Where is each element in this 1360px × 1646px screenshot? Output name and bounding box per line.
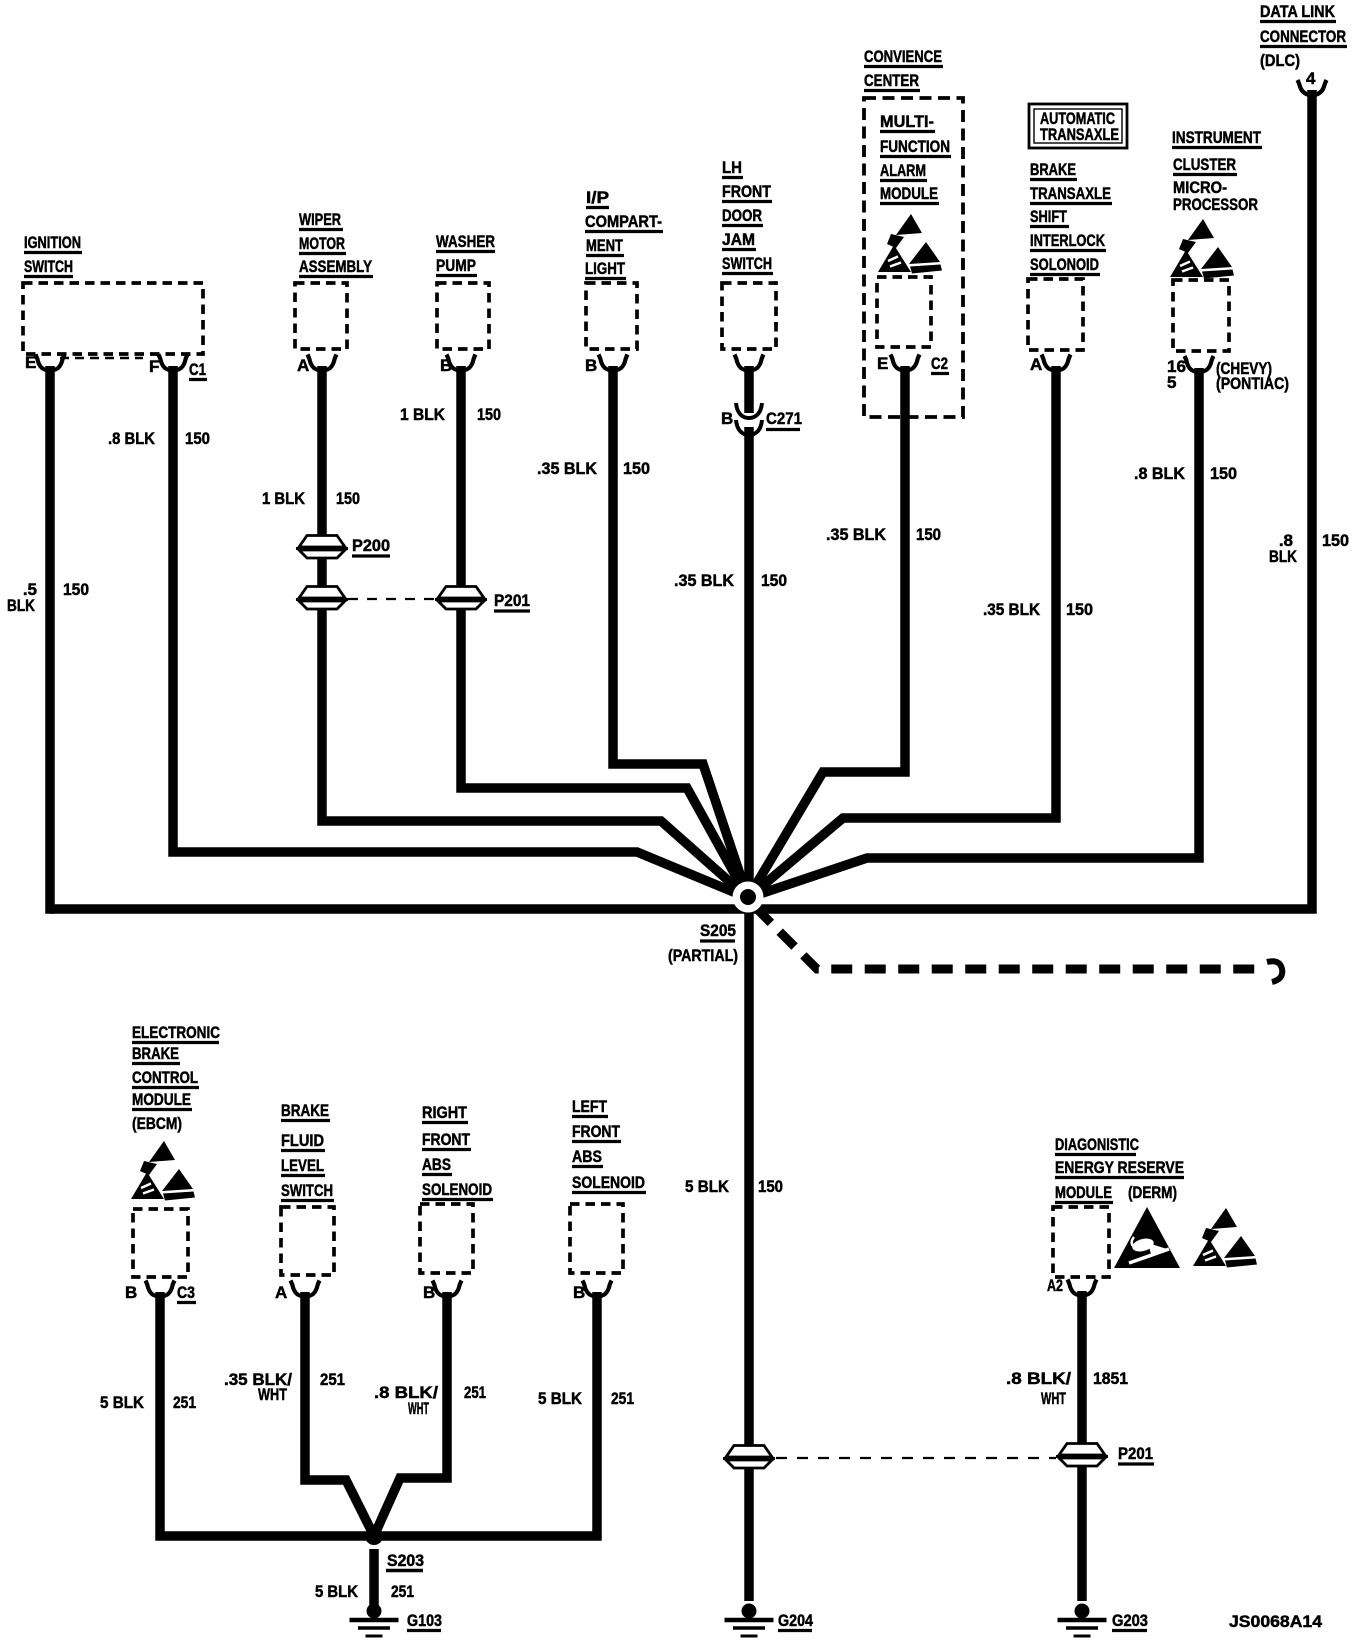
svg-text:TRANSAXLE: TRANSAXLE: [1040, 125, 1119, 144]
label G203: [1112, 1611, 1148, 1631]
wire EBCM to S203 (5 BLK 251): [160, 1292, 374, 1536]
data link connector label: [1260, 2, 1347, 70]
svg-text:S205: S205: [700, 921, 736, 940]
svg-text:ABS: ABS: [422, 1155, 451, 1174]
label B C271: [721, 409, 802, 430]
EBCM pin B: [125, 1281, 175, 1303]
ground G103: [350, 1604, 399, 1637]
label P201: [494, 591, 530, 611]
svg-text:S203: S203: [387, 1551, 424, 1570]
svg-text:150: 150: [1322, 531, 1349, 550]
DERM box: [1053, 1207, 1109, 1277]
grommet on G204 wire: [723, 1446, 775, 1469]
I/P compartment light label: [585, 188, 663, 279]
wire instrument cluster to S205 (.8 BLK 150): [748, 368, 1199, 898]
splice S203: [365, 1527, 383, 1545]
label .8 BLK 150 (DLC): [1269, 531, 1349, 566]
svg-text:MULTI-: MULTI-: [880, 112, 934, 131]
svg-text:WIPER: WIPER: [299, 210, 341, 229]
wire left front ABS to S203 (5 BLK 251): [374, 1292, 597, 1536]
svg-text:MENT: MENT: [586, 236, 623, 255]
svg-text:LIGHT: LIGHT: [585, 259, 625, 278]
label (CHEVY) (PONTIAC): [1216, 359, 1289, 393]
svg-text:BLK: BLK: [1269, 547, 1298, 566]
brake fluid level switch label: [281, 1101, 334, 1201]
label 5 BLK 251 (EBCM): [100, 1393, 196, 1412]
wire DLC to S205 (.8 BLK 150): [748, 90, 1312, 909]
svg-text:5 BLK: 5 BLK: [685, 1177, 730, 1196]
ESD symbol (instrument cluster): [1170, 219, 1234, 279]
svg-text:BRAKE: BRAKE: [281, 1101, 329, 1120]
convience center outer box: [864, 98, 963, 417]
svg-text:G203: G203: [1112, 1611, 1148, 1630]
svg-text:1 BLK: 1 BLK: [262, 489, 306, 508]
LH front door jam switch box: [722, 283, 776, 349]
wiper motor assembly box: [295, 283, 347, 349]
svg-text:150: 150: [761, 571, 787, 590]
svg-text:251: 251: [173, 1393, 196, 1412]
svg-text:PUMP: PUMP: [436, 256, 476, 275]
instrument cluster box: [1173, 280, 1229, 351]
svg-text:150: 150: [623, 459, 650, 478]
wire solonoid to S205 (.35 BLK 150): [748, 366, 1056, 898]
left front ABS pin B: [573, 1281, 612, 1303]
washer pump box: [437, 283, 489, 349]
svg-text:B: B: [721, 409, 733, 428]
svg-text:DATA LINK: DATA LINK: [1260, 2, 1336, 21]
label .35 BLK/WHT 251: [224, 1370, 345, 1404]
ignition switch label: [24, 233, 82, 277]
right front ABS solenoid box: [420, 1204, 473, 1273]
svg-text:BRAKE: BRAKE: [1030, 160, 1076, 179]
label G103: [407, 1611, 442, 1631]
svg-text:C271: C271: [766, 409, 802, 428]
wire right front ABS to S203 (.8 BLK/WHT 251): [374, 1292, 447, 1536]
svg-text:P201: P201: [494, 591, 530, 610]
svg-text:A: A: [1030, 355, 1042, 374]
label P201 (bottom): [1118, 1444, 1154, 1464]
dashed link to P201 (DERM): [776, 1457, 1056, 1459]
svg-text:ENERGY RESERVE: ENERGY RESERVE: [1055, 1158, 1184, 1177]
svg-text:ABS: ABS: [572, 1147, 602, 1166]
svg-text:IGNITION: IGNITION: [24, 233, 81, 252]
svg-text:DIAGONISTIC: DIAGONISTIC: [1055, 1135, 1139, 1154]
wiper motor assembly label: [299, 210, 373, 277]
svg-text:BLK: BLK: [7, 596, 36, 615]
svg-text:(DLC): (DLC): [1260, 51, 1300, 70]
svg-text:FLUID: FLUID: [281, 1131, 324, 1150]
grommet below P200: [296, 587, 348, 610]
wire DERM to G203 (.8 BLK/WHT 1851): [1077, 1291, 1087, 1601]
ignition switch box: [23, 283, 203, 358]
svg-text:.8 BLK: .8 BLK: [108, 429, 156, 448]
svg-text:150: 150: [916, 525, 941, 544]
svg-text:TRANSAXLE: TRANSAXLE: [1030, 184, 1111, 203]
svg-text:INTERLOCK: INTERLOCK: [1030, 231, 1106, 250]
EBCM box: [133, 1209, 188, 1277]
svg-text:MOTOR: MOTOR: [299, 234, 345, 253]
svg-text:ELECTRONIC: ELECTRONIC: [132, 1023, 220, 1042]
dashed link P200-P201: [348, 598, 436, 600]
label MODULE (DERM): [1055, 1183, 1177, 1203]
grommet P200: [296, 536, 348, 559]
label S205 (PARTIAL): [668, 921, 738, 965]
svg-text:WHT: WHT: [408, 1399, 429, 1418]
label .35 BLK 150 (solonoid): [983, 600, 1093, 619]
label S203: [386, 1551, 424, 1571]
washer pin B: [440, 355, 476, 376]
wire F to S205 (.8 BLK 150): [173, 366, 748, 898]
brake fluid level switch box: [281, 1207, 334, 1275]
label .8 BLK 150: [108, 429, 210, 448]
svg-text:WASHER: WASHER: [436, 232, 495, 251]
svg-text:P200: P200: [352, 536, 390, 555]
svg-text:150: 150: [477, 405, 501, 424]
wire E to S205 (.5 BLK 150): [45, 366, 55, 914]
svg-text:FRONT: FRONT: [722, 182, 772, 201]
wire S205 long horizontal to E: [50, 904, 748, 914]
svg-text:COMPART-: COMPART-: [585, 212, 662, 231]
grommet P201 (DERM wire): [1056, 1444, 1108, 1467]
svg-text:251: 251: [391, 1582, 414, 1601]
svg-text:150: 150: [1210, 464, 1237, 483]
svg-text:SOLONOID: SOLONOID: [1030, 255, 1099, 274]
ESD symbol (alarm module): [878, 214, 942, 274]
svg-text:A2: A2: [1047, 1276, 1063, 1295]
wiper pin A: [297, 355, 337, 376]
svg-text:CONTROL: CONTROL: [132, 1068, 198, 1087]
wire washer pump to S205 (1 BLK 150): [461, 366, 748, 898]
ignition pin F: [149, 355, 188, 377]
connector C2 label: [931, 354, 949, 374]
svg-text:.8 BLK: .8 BLK: [1134, 464, 1186, 483]
drawing number JS0068A14: [1229, 1612, 1323, 1631]
diagonistic energy reserve module label: [1055, 1135, 1184, 1178]
svg-text:INSTRUMENT: INSTRUMENT: [1172, 128, 1261, 147]
alarm pin E: [877, 354, 920, 373]
svg-text:MODULE: MODULE: [880, 184, 938, 203]
connector C3 label: [177, 1283, 196, 1303]
svg-text:F: F: [149, 357, 159, 376]
svg-text:CONVIENCE: CONVIENCE: [864, 47, 942, 66]
svg-text:251: 251: [611, 1389, 634, 1408]
I/P pin B: [585, 355, 628, 376]
svg-text:ALARM: ALARM: [880, 161, 926, 180]
svg-text:MODULE: MODULE: [1055, 1183, 1112, 1202]
label .35 BLK 150 (door): [674, 571, 787, 590]
svg-text:SOLENOID: SOLENOID: [422, 1180, 492, 1199]
svg-text:SWITCH: SWITCH: [24, 257, 73, 276]
ESD symbol (DERM): [1193, 1208, 1257, 1268]
label .8 BLK 150 (cluster): [1134, 464, 1237, 483]
label .8 BLK/WHT 251: [374, 1383, 486, 1418]
svg-text:5 BLK: 5 BLK: [538, 1389, 583, 1408]
ignition pin E: [25, 353, 65, 372]
svg-text:LEVEL: LEVEL: [281, 1156, 324, 1175]
svg-text:G103: G103: [407, 1611, 442, 1630]
svg-text:ASSEMBLY: ASSEMBLY: [299, 257, 373, 276]
label 1 BLK 150 (washer): [400, 405, 501, 424]
splice S205: [733, 882, 764, 913]
dashed wire from S205: [756, 908, 1282, 982]
svg-text:SHIFT: SHIFT: [1030, 207, 1067, 226]
label 5 BLK 251 (G103): [315, 1582, 414, 1601]
brake fluid pin A: [275, 1281, 320, 1303]
convience center label: [864, 47, 943, 91]
I/P compartment light box: [586, 283, 637, 349]
left front ABS solenoid label: [572, 1097, 646, 1193]
svg-text:SOLENOID: SOLENOID: [572, 1173, 645, 1192]
svg-text:G204: G204: [778, 1611, 813, 1630]
wire alarm module to S205 (.35 BLK 150): [748, 366, 905, 898]
svg-text:A: A: [275, 1283, 287, 1302]
svg-text:CENTER: CENTER: [864, 71, 919, 90]
door switch pin cup: [735, 355, 764, 371]
brake transaxle shift interlock solonoid label: [1030, 160, 1112, 275]
svg-text:JS0068A14: JS0068A14: [1229, 1612, 1323, 1631]
svg-text:B: B: [585, 356, 597, 375]
ground G204: [725, 1604, 774, 1637]
label .5 BLK 150: [7, 580, 89, 615]
svg-text:5 BLK: 5 BLK: [100, 1393, 145, 1412]
svg-text:CONNECTOR: CONNECTOR: [1260, 27, 1346, 46]
svg-text:(DERM): (DERM): [1128, 1183, 1177, 1202]
svg-text:MODULE: MODULE: [132, 1090, 191, 1109]
right front ABS solenoid label: [422, 1103, 493, 1200]
LH front door jam switch label: [722, 158, 773, 274]
label P200: [352, 536, 390, 556]
left front ABS solenoid box: [570, 1204, 623, 1273]
svg-text:WHT: WHT: [1041, 1389, 1066, 1408]
right front ABS pin B: [423, 1281, 462, 1303]
automatic transaxle box label: [1029, 104, 1127, 148]
svg-text:CLUSTER: CLUSTER: [1173, 155, 1236, 174]
svg-text:FRONT: FRONT: [572, 1122, 621, 1141]
svg-text:DOOR: DOOR: [722, 206, 762, 225]
svg-text:150: 150: [185, 429, 210, 448]
svg-text:150: 150: [336, 489, 360, 508]
multi-function alarm module label: [880, 112, 951, 204]
brake transaxle shift interlock solonoid box: [1028, 279, 1083, 350]
grommet P201: [435, 587, 487, 610]
svg-text:C1: C1: [189, 360, 206, 379]
label G204: [778, 1611, 813, 1631]
svg-text:SWITCH: SWITCH: [722, 254, 772, 273]
svg-text:4: 4: [1306, 69, 1316, 88]
solonoid pin A: [1030, 355, 1071, 375]
svg-text:.35 BLK: .35 BLK: [674, 571, 735, 590]
label 1 BLK 150 (wiper): [262, 489, 360, 508]
svg-text:5 BLK: 5 BLK: [315, 1582, 359, 1601]
svg-text:JAM: JAM: [722, 230, 755, 249]
wire I/P light to S205 (.35 BLK 150): [613, 366, 748, 898]
svg-text:FRONT: FRONT: [422, 1130, 471, 1149]
label .35 BLK 150 (I/P): [537, 459, 650, 478]
svg-text:1 BLK: 1 BLK: [400, 405, 446, 424]
wire door switch to C271: [744, 366, 754, 413]
electronic brake control module label: [132, 1023, 220, 1133]
svg-text:.35 BLK: .35 BLK: [826, 525, 887, 544]
svg-text:PROCESSOR: PROCESSOR: [1173, 195, 1258, 214]
svg-text:1851: 1851: [1093, 1369, 1128, 1388]
wire S203 to G103 (5 BLK 251): [369, 1549, 379, 1606]
wire C271 to S205 then G204 (.35 BLK / 5 BLK): [744, 427, 754, 1601]
svg-text:150: 150: [1066, 600, 1093, 619]
svg-text:150: 150: [758, 1177, 783, 1196]
svg-text:LEFT: LEFT: [572, 1097, 608, 1116]
connector C271: [736, 403, 762, 435]
wire wiper motor to S205 (1 BLK 150): [322, 366, 748, 898]
svg-text:.8 BLK/: .8 BLK/: [1006, 1369, 1071, 1388]
svg-text:BRAKE: BRAKE: [132, 1044, 179, 1063]
svg-text:E: E: [877, 354, 888, 373]
DERM pin A2: [1047, 1276, 1097, 1296]
washer pump label: [436, 232, 495, 276]
svg-text:B: B: [125, 1283, 137, 1302]
svg-text:P201: P201: [1118, 1444, 1153, 1463]
svg-text:251: 251: [464, 1383, 486, 1402]
svg-text:.35 BLK: .35 BLK: [537, 459, 598, 478]
svg-text:C3: C3: [177, 1283, 195, 1302]
ESD symbol (EBCM): [131, 1141, 195, 1201]
svg-text:(PONTIAC): (PONTIAC): [1216, 374, 1289, 393]
svg-text:(PARTIAL): (PARTIAL): [668, 946, 738, 965]
svg-text:C2: C2: [931, 354, 948, 373]
alarm module inner box: [877, 277, 931, 347]
svg-text:I/P: I/P: [586, 188, 609, 207]
label .35 BLK 150 (alarm): [826, 525, 941, 544]
connector C1 label: [189, 360, 207, 380]
label 5 BLK 251 (left front): [538, 1389, 634, 1408]
ESD symbol solid (DERM): [1114, 1207, 1180, 1268]
cluster pins 16 / 5: [1167, 356, 1214, 392]
svg-text:150: 150: [63, 580, 89, 599]
label 5 BLK 150 (to G204): [685, 1177, 783, 1196]
svg-text:SWITCH: SWITCH: [281, 1181, 333, 1200]
svg-text:FUNCTION: FUNCTION: [880, 137, 950, 156]
svg-text:5: 5: [1167, 373, 1176, 392]
svg-text:251: 251: [320, 1370, 345, 1389]
svg-text:RIGHT: RIGHT: [422, 1103, 468, 1122]
DLC pin 4: [1298, 69, 1327, 95]
instrument cluster micro-processor label: [1172, 128, 1262, 214]
svg-text:WHT: WHT: [258, 1385, 287, 1404]
svg-text:(EBCM): (EBCM): [132, 1114, 182, 1133]
svg-text:.35 BLK: .35 BLK: [983, 600, 1041, 619]
label .8 BLK/WHT 1851: [1006, 1369, 1128, 1408]
wire brake fluid switch to S203 (.35 BLK/WHT 251): [305, 1292, 374, 1536]
svg-text:LH: LH: [722, 158, 742, 177]
ground G203: [1058, 1604, 1107, 1637]
